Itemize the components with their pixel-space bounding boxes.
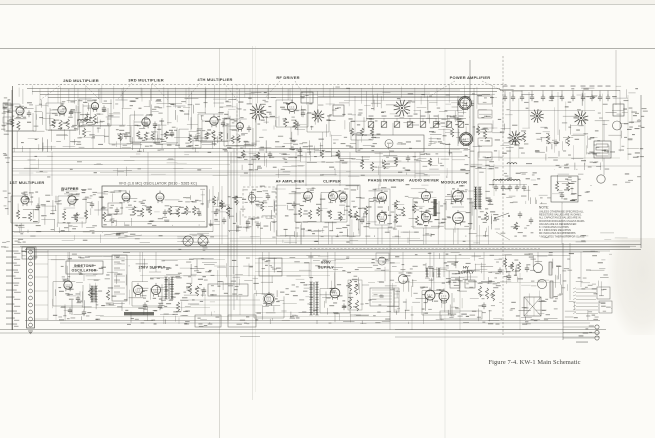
right border wire x641 xyxy=(640,95,642,248)
grid tuning text xyxy=(346,88,350,89)
modulation reactor L-500 xyxy=(493,180,520,182)
clutter 600v xyxy=(396,290,398,298)
vfo tube V-104 xyxy=(156,193,164,201)
hv rect tube V-606 xyxy=(425,290,435,300)
250v power transformer T-601 xyxy=(165,277,167,299)
labels near V-204 xyxy=(83,102,87,103)
wire top bus 4 xyxy=(48,97,470,99)
wires of V-206 xyxy=(226,144,254,146)
terminal strip labels xyxy=(6,251,19,252)
page top edge line xyxy=(0,4,655,6)
inter-band horizontals y155-175 xyxy=(12,156,468,158)
mid components between stages xyxy=(118,133,121,141)
pa tube V-401 xyxy=(460,98,470,108)
pa out extra wires xyxy=(470,165,641,167)
wires of V-204 xyxy=(81,125,109,127)
driver coupling choke xyxy=(434,199,437,216)
bandswitch S-201 section xyxy=(260,113,266,115)
clutter multiplier chain xyxy=(35,104,48,106)
resistor near V-203 xyxy=(144,132,147,140)
driver tank components xyxy=(350,128,353,136)
fan motor B-601 xyxy=(533,263,542,272)
driver plate box xyxy=(333,105,344,116)
heater bus dark bar xyxy=(124,312,154,315)
clutter af band xyxy=(335,191,341,193)
fan motor B-602 xyxy=(537,279,546,288)
harmonic control text xyxy=(308,146,313,147)
svg-text:600V: 600V xyxy=(321,261,331,265)
clutter hv xyxy=(425,290,430,292)
top chain extra clutter xyxy=(173,105,186,107)
terminal 7 xyxy=(29,289,33,293)
clutter sidetone xyxy=(103,255,113,257)
vertical page crease 2 xyxy=(252,46,254,400)
resistor near V-205 xyxy=(219,132,222,141)
extra top band verticals xyxy=(18,88,20,97)
ground at strip bottom xyxy=(28,330,33,332)
resistor near V-203 xyxy=(151,133,154,141)
1st multiplier tube V-101 xyxy=(21,196,29,204)
svg-text:Figure 7-4. KW-1 Main Schem: Figure 7-4. KW-1 Main Schematic xyxy=(488,359,580,366)
250v filter parts xyxy=(143,304,147,306)
vertical wire x296 xyxy=(295,152,297,244)
lower mid horizontal wires xyxy=(395,329,540,331)
modulator lower caps xyxy=(518,213,522,215)
aux resistor bars xyxy=(549,262,552,275)
bottom bus y320 xyxy=(25,320,600,322)
resistor near V-201A xyxy=(17,121,20,130)
neutralizing relay box K-201 xyxy=(301,92,313,103)
resistor near V-203 xyxy=(137,131,140,138)
microphone input dashed box xyxy=(243,187,276,217)
pa tube interconnect wires xyxy=(457,96,459,146)
extra supply-band horizontals xyxy=(255,258,470,260)
modulator tube V-305 xyxy=(453,191,464,202)
stage wire frames supplies xyxy=(52,282,54,306)
hv bottom boxes xyxy=(440,311,482,319)
pa tube V-401 outer envelope xyxy=(459,97,472,110)
power interconnect box xyxy=(208,284,248,296)
bottom bus y333 xyxy=(0,332,600,334)
clutter pa mid xyxy=(364,104,371,106)
sub-bus under multipliers xyxy=(130,156,310,158)
svg-text:OSCILLATOR: OSCILLATOR xyxy=(71,269,96,273)
vertical bus bundle x228 xyxy=(227,152,229,320)
vertical page crease 3 xyxy=(444,48,446,438)
right inner wire x616 xyxy=(615,50,617,105)
vfo components xyxy=(108,203,122,214)
mesh horizontals y236-242 xyxy=(12,238,420,240)
resistor near V-206 xyxy=(237,135,240,143)
right mid verticals into note area xyxy=(477,160,479,205)
vertical wire x474 xyxy=(473,88,475,230)
pilot circle xyxy=(378,257,386,265)
vertical wire x350 xyxy=(349,152,351,244)
terminal 12 xyxy=(29,323,33,327)
audio driver tube V-304B xyxy=(421,212,430,221)
audio bottom bus 2 xyxy=(12,246,630,248)
sidetone transformer xyxy=(88,288,91,298)
stage wire frames af row xyxy=(294,192,296,222)
pa tank capacitor row xyxy=(368,122,374,128)
spare connector group 2 xyxy=(576,302,598,304)
af amplifier box outline xyxy=(277,185,360,236)
resistor near V-202 xyxy=(66,119,69,129)
bottom bus y323 xyxy=(60,322,590,324)
tube V-202 xyxy=(58,106,66,114)
svg-text:AUDIO DRIVER: AUDIO DRIVER xyxy=(409,179,439,183)
interconnect wires xyxy=(180,299,260,301)
control boxes bottom xyxy=(195,315,221,327)
hv terminal pins xyxy=(394,288,399,312)
stage wire frames buffer row xyxy=(10,196,12,223)
svg-text:2ND MULTIPLIER: 2ND MULTIPLIER xyxy=(63,78,99,83)
aux labels right of hv xyxy=(524,254,529,255)
250v supply rect tube V-603 xyxy=(151,285,160,294)
svg-text:VFO (1.6 MC) OSCILLATOR (5010: VFO (1.6 MC) OSCILLATOR (5010 - 5265 KC) xyxy=(119,182,197,186)
resistor near V-202 xyxy=(52,119,55,128)
resistor near V-201A xyxy=(11,119,14,127)
terminal strip bar left xyxy=(27,248,35,328)
rf driver tube V-207 xyxy=(287,102,296,111)
af verticals to bus xyxy=(259,222,261,245)
driver-PA horizontal link wires xyxy=(318,96,470,98)
pa cathode resistors xyxy=(450,128,453,137)
tube V-206 xyxy=(237,123,244,130)
vertical bus bundle x231 xyxy=(230,152,232,320)
600v supply label parts xyxy=(292,315,296,316)
rectifier bridge box xyxy=(524,297,541,316)
left schematic border emphasis xyxy=(12,86,14,330)
600v transformer T-602 xyxy=(310,282,312,315)
bias supply components xyxy=(188,284,191,294)
vertical bus bundle x237 xyxy=(236,105,238,300)
600v filter resistors xyxy=(348,280,351,291)
key switch lines below buffer xyxy=(104,232,128,235)
capacitor near V-202 xyxy=(69,111,73,113)
antenna switch wires xyxy=(510,110,595,112)
svg-text:PHASE INVERTER: PHASE INVERTER xyxy=(368,179,404,183)
antenna tuner unit box xyxy=(551,176,578,202)
resistor near V-202 xyxy=(59,120,62,130)
tube V-201A xyxy=(16,107,24,115)
labels near V-206 xyxy=(234,120,238,121)
low pass filter box xyxy=(613,104,624,116)
svg-text:RF DRIVER: RF DRIVER xyxy=(276,75,299,80)
pa plate tank box xyxy=(356,135,424,152)
terminal 4 xyxy=(29,269,33,273)
top bus reinforcing lines xyxy=(60,89,460,91)
antenna post circle xyxy=(597,175,605,183)
row2 bottom bus segment xyxy=(12,235,228,237)
terminal 11 xyxy=(29,317,33,321)
dashed link driver to PA xyxy=(236,84,238,160)
resistor near V-204 xyxy=(85,115,88,124)
left strip risers xyxy=(47,250,49,320)
svg-text:HV: HV xyxy=(463,266,469,270)
600v left mesh xyxy=(248,264,250,277)
dummy load box with meander xyxy=(594,141,611,158)
extra bus lines y246-251 xyxy=(20,245,636,247)
audio bottom bus 3 xyxy=(25,249,641,251)
vfo tube V-103 xyxy=(122,193,130,201)
hv transformer T-603 xyxy=(426,268,428,277)
clutter inter-band 2 xyxy=(544,237,549,239)
clutter driver section xyxy=(264,153,266,166)
switch arm below note xyxy=(496,232,510,240)
clutter mid left xyxy=(87,202,92,204)
mic lower caps xyxy=(246,221,250,223)
resistor near V-205 xyxy=(212,130,215,140)
dashed band select line xyxy=(18,84,508,86)
phase inverter tube V-303A xyxy=(377,192,386,201)
capacitor near V-206 xyxy=(247,127,251,129)
wire row2 bottom bus y231 xyxy=(12,231,213,233)
row1 misc components lower xyxy=(241,150,244,158)
svg-text:1ST MULTIPLIER: 1ST MULTIPLIER xyxy=(10,180,45,185)
pa tube V-402 outer envelope xyxy=(460,133,473,146)
stage wire frames top row xyxy=(3,104,5,131)
audio bottom bus 4 xyxy=(25,251,600,253)
rf output wires right xyxy=(603,120,605,141)
clipper tube V-302 xyxy=(328,191,337,200)
pa loading capacitors xyxy=(522,132,525,142)
left margin labels xyxy=(7,110,10,111)
extra long horizontals y171-175 xyxy=(12,170,470,172)
vertical wire x570 xyxy=(569,243,571,300)
capacitor near V-201A xyxy=(27,112,31,114)
phase inverter tube V-303B xyxy=(377,212,386,221)
scan shading top-right of lower section xyxy=(0,0,1,1)
dashed vertical x503 xyxy=(502,56,504,335)
clutter 250v xyxy=(200,319,207,321)
wires of V-205 xyxy=(200,140,228,142)
svg-text:CLIPPER: CLIPPER xyxy=(323,180,341,184)
terminal 2 xyxy=(29,256,33,260)
bottom partial bus y337 xyxy=(395,336,600,338)
clipper level components xyxy=(364,206,367,215)
wires of V-201A xyxy=(6,130,34,132)
terminal 3 xyxy=(29,262,33,266)
mike door shorting switch xyxy=(495,213,509,218)
terminal 6 xyxy=(29,282,33,286)
extra pa out verticals xyxy=(502,92,504,138)
terminal 10 xyxy=(29,310,33,314)
page rule line xyxy=(0,48,655,50)
vertical wire x415 xyxy=(414,152,416,178)
hv bleeder resistors xyxy=(478,286,481,297)
svg-text:3RD MULTIPLIER: 3RD MULTIPLIER xyxy=(128,78,164,83)
terminal 8 xyxy=(29,296,33,300)
sidetone relay contact stack xyxy=(112,255,127,301)
svg-text:AF AMPLIFIER: AF AMPLIFIER xyxy=(276,180,305,184)
spare connector group 1 xyxy=(576,288,596,290)
sidetone oscillator label box xyxy=(66,261,103,274)
pa coupling spoke S-402 xyxy=(517,139,522,141)
modulator feedback parts xyxy=(484,212,487,221)
pa meter bias column xyxy=(478,96,492,104)
250v supply rect tube V-602 xyxy=(133,285,142,294)
labels near V-202 xyxy=(61,104,64,105)
left inner wire xyxy=(7,100,9,215)
wire top bus 1 xyxy=(27,88,500,90)
capacitor near V-204 xyxy=(102,107,106,109)
vfo dial jacks xyxy=(183,236,193,246)
sidetone tube V-601 xyxy=(64,281,72,289)
capacitor near V-203 xyxy=(153,123,157,125)
terminal 9 xyxy=(29,303,33,307)
modulator tube V-306 xyxy=(453,213,464,224)
antenna changeover spoke S-403 xyxy=(539,117,544,119)
terminal 5 xyxy=(29,275,33,279)
vertical wire x470 xyxy=(469,60,471,250)
clutter right mid xyxy=(562,182,575,184)
buffer tube V-102 xyxy=(68,196,76,204)
stage wire frames mid components xyxy=(108,125,110,144)
bottom border bus y329 xyxy=(0,329,606,331)
terminal feed wires xyxy=(35,251,49,253)
labels near V-205 xyxy=(207,133,210,134)
clutter aux right xyxy=(519,309,531,311)
wires of V-203 xyxy=(132,141,160,143)
capacitor near V-205 xyxy=(221,122,225,124)
keying bus components between vfo and mic xyxy=(212,196,215,205)
line terminal circles xyxy=(595,325,599,329)
diagonal leaders from headings xyxy=(40,84,62,100)
audio bottom bus 1 xyxy=(12,244,641,246)
600v rect tube V-605 xyxy=(330,288,340,298)
sidetone bottom parts xyxy=(68,309,72,311)
vertical wire x510 xyxy=(509,92,511,180)
svg-text:4TH MULTIPLIER: 4TH MULTIPLIER xyxy=(197,77,232,82)
bottom long verticals xyxy=(389,252,391,330)
neutral label xyxy=(576,342,588,343)
hv meter circle M-601 xyxy=(398,274,407,283)
svg-text:NOTE:: NOTE: xyxy=(539,206,549,210)
antenna loading spoke S-404 xyxy=(583,119,588,121)
driver bandswitch S-202 xyxy=(320,117,325,118)
vertical bus bundle x234 xyxy=(233,148,235,310)
buffer output components xyxy=(102,212,105,221)
clutter inter-band 1 xyxy=(278,169,280,178)
600v rect tube V-604 xyxy=(264,294,273,303)
labels near V-203 xyxy=(135,125,139,126)
resistor near V-204 xyxy=(93,114,96,124)
svg-text:MODULATOR: MODULATOR xyxy=(441,181,467,185)
vertical page crease xyxy=(219,48,221,438)
svg-text:SUPPLY: SUPPLY xyxy=(458,271,474,275)
misc top band verticals xyxy=(39,89,41,105)
af amp tube V-301 xyxy=(304,192,313,201)
crystal components below 1st mult xyxy=(18,239,23,240)
resistor near V-205 xyxy=(205,132,208,139)
pa tube V-402 xyxy=(461,134,471,144)
hv filter caps xyxy=(450,280,460,288)
bottom right box line xyxy=(240,336,260,338)
resistor near V-206 xyxy=(231,136,234,144)
connector pin column xyxy=(370,288,394,306)
vertical wire x390 xyxy=(389,230,391,320)
left border wire xyxy=(11,90,13,330)
row1 to row2 drop wires xyxy=(29,148,31,196)
bottom area connecting verticals xyxy=(67,252,69,262)
mic jack xyxy=(248,194,256,202)
labels near V-201A xyxy=(29,104,33,105)
clutter vfo box xyxy=(111,214,113,226)
wire mid bus at y152 xyxy=(12,151,462,153)
tube V-204 xyxy=(91,102,98,109)
wire top bus 2 xyxy=(32,91,497,93)
tube V-203 xyxy=(142,118,150,126)
vertical wire x563 xyxy=(562,243,564,340)
600v supply terminal box xyxy=(259,258,282,276)
pa filament bits xyxy=(594,161,598,162)
pa bottom resistor row xyxy=(360,160,363,169)
wires of V-202 xyxy=(48,129,76,131)
audio driver tube V-304A xyxy=(421,191,430,200)
mod output caps row xyxy=(494,186,498,188)
aux components right of hv supply xyxy=(503,258,506,267)
left edge antenna terminal blocks xyxy=(9,119,14,120)
VFO enclosure box xyxy=(102,186,207,227)
clutter pa output xyxy=(478,109,486,111)
row2 drops to bus xyxy=(251,217,253,244)
terminal 1 xyxy=(29,250,33,254)
pa grid switch S-401 xyxy=(404,109,410,111)
hv rect tube V-607 xyxy=(439,291,449,301)
supply top bus xyxy=(30,255,570,257)
antenna relay circle K-401 xyxy=(613,121,622,130)
interstage coil T-201 xyxy=(78,120,90,121)
tube V-205 xyxy=(210,117,218,125)
pa output coupling row xyxy=(500,90,620,92)
wire mid bus at y148 xyxy=(12,148,468,150)
modulation transformer T-301 xyxy=(475,187,477,209)
wire top bus 3 xyxy=(40,94,490,96)
